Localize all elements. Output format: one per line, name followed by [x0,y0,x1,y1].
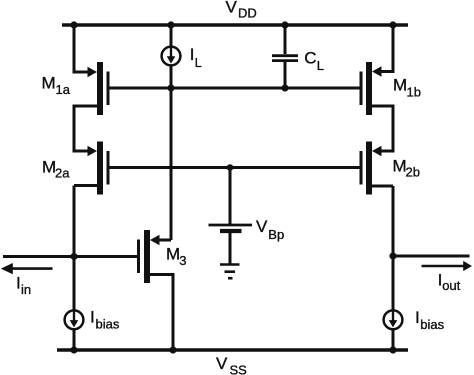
arrow Iin [1,263,53,274]
node dot VDD-IL [167,21,174,28]
node dot VDD-left spine [70,21,77,28]
wire M2b drain down to VSS (through Iout node and Ibias) [372,185,393,188]
wire M1a drain to M2a source arrow [74,106,97,151]
wire VDD to IL source [170,25,173,47]
svg-text:DD: DD [238,6,257,21]
svg-text:V: V [226,0,238,17]
svg-text:in: in [21,282,31,297]
svg-text:I: I [415,308,420,327]
wire Iout node line to right edge [393,255,470,258]
transistor M1b [360,62,382,115]
wire battery minus to ground [229,232,232,264]
wire M2a drain down to VSS (through Iin node and Ibias) [73,186,76,312]
svg-text:1b: 1b [407,85,421,100]
svg-text:2b: 2b [406,165,420,180]
wire M1b drain to M2b source arrow [372,106,393,151]
svg-text:V: V [216,354,228,373]
current source Ibias left [65,310,84,329]
ground [220,265,240,279]
node dot IL to M1 gate line [167,84,174,91]
node dot VDD-right spine [389,21,396,28]
svg-text:out: out [442,278,460,293]
transistor M3 [137,230,160,283]
wire M3 drain arrow shaft [159,239,171,242]
current source IL [162,47,181,66]
node dot Iout [389,252,396,259]
wire VSS bottom rail [57,348,408,351]
node dot VSS-M3 source [169,346,176,353]
wire M1 gate line (M1a gate to M1b gate) [109,87,360,90]
arrow Iout [422,261,473,271]
wire M2 gate line (M2a gate to M2b gate) [109,166,361,169]
node dot VDD-CL [281,21,288,28]
wire VDD to CL capacitor [284,25,287,54]
node dot VSS-left spine [70,346,77,353]
svg-text:C: C [304,48,316,67]
svg-text:I: I [90,307,95,326]
wire right spine from VDD to M1b source arrow [380,25,393,72]
svg-text:1a: 1a [56,82,71,97]
svg-text:SS: SS [230,362,248,375]
transistor M2a [88,142,110,195]
wire VDD top rail [62,23,408,26]
node dot VBp tap on M2 gate line [227,164,234,171]
svg-text:bias: bias [96,316,120,331]
transistor M1a [88,62,110,115]
svg-text:M: M [393,75,407,94]
svg-text:L: L [317,58,324,73]
wire IL source down through M1 gate line to M3 drain arrow [170,66,173,240]
svg-text:Bp: Bp [268,227,284,242]
node dot CL to M1 gate line [281,84,288,91]
svg-text:bias: bias [420,317,444,332]
current source Ibias right [384,310,403,329]
battery VBp [209,225,253,231]
svg-text:V: V [256,217,268,236]
node dot Iin [70,253,77,260]
svg-text:3: 3 [179,253,186,268]
svg-text:M: M [42,73,56,92]
svg-text:L: L [195,55,202,70]
svg-text:M: M [166,244,180,263]
wire CL bottom plate to M1 gate line [284,62,287,88]
wire M3 source lead down to VSS [150,275,173,351]
wire left spine from VDD to M1a source arrow [74,25,88,72]
wire VBp tap from M2 gate line down to battery [229,168,232,225]
svg-text:2a: 2a [55,166,70,181]
capacitor CL [272,56,298,61]
wire Iin input line to M3 gate [3,255,137,258]
transistor M2b [360,142,382,195]
node dot VSS-right spine [389,346,396,353]
